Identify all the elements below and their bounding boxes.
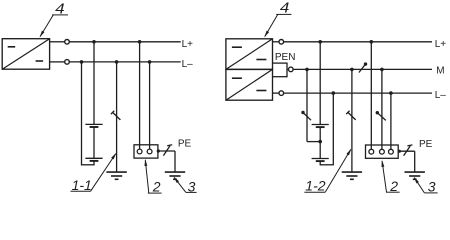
output terminal - (right) xyxy=(273,91,284,96)
switch S4 in battery tap (right) xyxy=(301,111,311,120)
output terminal - (left) xyxy=(50,60,70,65)
svg-text:L+: L+ xyxy=(435,39,447,50)
wire L- drop to distribution (right) xyxy=(390,93,392,149)
battery GB2 cell 1 (right) xyxy=(312,125,329,128)
label L- (right) xyxy=(435,90,447,101)
label 3 (right) with leader xyxy=(414,177,438,195)
rail M (right) xyxy=(293,68,432,70)
svg-text:1-2: 1-2 xyxy=(305,178,325,194)
junction on L- battery return xyxy=(80,60,84,64)
output terminal + (right) xyxy=(273,40,284,45)
switch S3 in rail M xyxy=(359,62,367,72)
output terminal M (right) xyxy=(289,67,294,72)
svg-text:2: 2 xyxy=(152,179,161,195)
rail L- (right) xyxy=(284,92,433,94)
distribution board 2 (right) xyxy=(366,145,399,158)
label PE (left) xyxy=(178,139,192,150)
battery GB1 cell 1 (left) xyxy=(85,124,102,127)
rail L+ (left) xyxy=(69,41,181,43)
converter U2 lower section (right) xyxy=(226,69,273,100)
junction on L+ load feed xyxy=(138,40,142,44)
terminal circle a (right board) xyxy=(369,149,374,154)
junction on L+ battery feed (right) xyxy=(318,40,322,44)
switch S7 to PE (right) xyxy=(404,145,413,156)
ground electrode (left) xyxy=(106,172,126,179)
junction on L- earthing conductor xyxy=(115,60,119,64)
wire tap to battery midpoint (right) xyxy=(307,141,320,143)
svg-text:M: M xyxy=(436,66,444,77)
terminal circle b (right board) xyxy=(380,149,385,154)
wire board to PE earth (right) xyxy=(398,150,415,152)
svg-text:2: 2 xyxy=(389,178,398,194)
label 1-2 with leader xyxy=(304,149,351,194)
wire battery return to L- (right) xyxy=(332,93,334,165)
wire battery + drop (right) xyxy=(319,42,321,125)
rail L- (left) xyxy=(69,61,181,63)
label L- (left) xyxy=(182,59,194,70)
junction battery midpoint (right) xyxy=(318,140,322,144)
junction on L- load feed xyxy=(148,60,152,64)
wire battery bottom (left) xyxy=(81,161,94,166)
PE earth electrode (right) xyxy=(405,151,425,179)
ground electrode (right) xyxy=(342,172,362,179)
svg-text:L–: L– xyxy=(435,90,447,101)
label 1-1 with leader xyxy=(71,153,117,193)
wire battery return to L- (left) xyxy=(81,62,83,165)
switch S1 in earthing conductor (left) xyxy=(111,111,120,120)
battery GB2 cell 2 (right) xyxy=(312,159,329,162)
label L+ (right) xyxy=(435,39,447,50)
junction on L- load feed (right) xyxy=(389,91,393,95)
terminal circle b (left board) xyxy=(147,149,152,154)
wire battery bottom (right) xyxy=(320,161,333,165)
wire earthing conductor (left) xyxy=(116,62,118,172)
label 4 (left) with leader xyxy=(40,1,68,37)
junction on M load feed (right) xyxy=(380,68,384,72)
wire L+ drop to distribution (left) xyxy=(139,42,141,149)
wire between cells (right) xyxy=(319,127,321,158)
wire between cells (left) xyxy=(93,127,95,158)
label M (right) xyxy=(436,66,444,77)
terminal circle a (left board) xyxy=(137,149,142,154)
label L+ (left) xyxy=(182,39,194,50)
label PEN xyxy=(275,52,296,63)
junction on L- battery return (right) xyxy=(332,91,336,95)
wire earthing conductor (right) xyxy=(351,69,353,172)
wire L- drop to distribution (left) xyxy=(149,62,151,149)
switch S5 in earthing conductor (right) xyxy=(346,111,355,120)
label PE (right) xyxy=(419,139,433,150)
converter U2 upper section (right) xyxy=(226,39,273,70)
junction on L+ load feed (right) xyxy=(370,40,374,44)
junction on M battery tap (right) xyxy=(305,68,309,72)
svg-text:3: 3 xyxy=(428,178,436,194)
PE earth electrode (left) xyxy=(165,151,185,179)
wire board to PE earth (left) xyxy=(158,150,175,152)
distribution board 2 (left) xyxy=(134,145,158,158)
switch S2 to PE (left) xyxy=(163,145,172,156)
PEN bracket wire xyxy=(273,63,289,78)
wire M tap drop (right) xyxy=(306,69,308,141)
svg-text:PE: PE xyxy=(178,139,192,150)
wire M drop to distribution (right) xyxy=(381,69,383,149)
junction at board output (left) xyxy=(157,149,160,152)
label 3 (left) with leader xyxy=(174,177,197,195)
wire L+ drop to distribution (right) xyxy=(370,42,372,150)
junction on M earthing conductor (right) xyxy=(350,68,354,72)
output terminal + (left) xyxy=(50,40,70,45)
wire battery + drop (left) xyxy=(93,42,95,125)
junction on L+ battery feed xyxy=(92,40,96,44)
junction at board output (right) xyxy=(398,150,401,153)
switch S6 in M drop (right) xyxy=(376,111,386,120)
svg-text:L+: L+ xyxy=(182,39,194,50)
label 4 (right) with leader xyxy=(264,1,291,38)
svg-text:PE: PE xyxy=(419,139,433,150)
converter U1 (left rectifier box) xyxy=(2,39,49,69)
svg-text:PEN: PEN xyxy=(275,52,296,63)
rail L+ (right) xyxy=(284,41,433,43)
label 2 (right) with leader xyxy=(381,160,399,194)
svg-text:L–: L– xyxy=(182,59,194,70)
label 2 (left) with leader xyxy=(144,159,161,195)
battery GB1 cell 2 (left) xyxy=(85,158,102,161)
terminal circle c (right board) xyxy=(389,149,394,154)
